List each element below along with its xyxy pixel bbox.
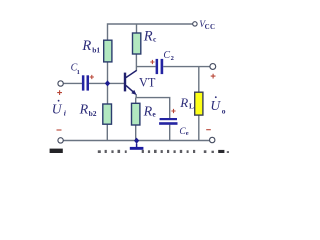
svg-text:VT: VT — [139, 76, 156, 90]
svg-text:L: L — [189, 102, 194, 111]
svg-text:R: R — [179, 95, 188, 110]
svg-text:U: U — [52, 102, 63, 117]
svg-text:R: R — [81, 38, 91, 54]
svg-text:R: R — [143, 28, 153, 44]
svg-text:U: U — [210, 98, 221, 113]
svg-text:2: 2 — [171, 55, 174, 62]
svg-text:C: C — [163, 50, 170, 61]
svg-text:o: o — [222, 107, 226, 116]
svg-text:1: 1 — [77, 69, 80, 76]
svg-text:b2: b2 — [89, 109, 97, 118]
svg-text:CC: CC — [205, 23, 216, 31]
svg-text:b1: b1 — [92, 45, 100, 54]
svg-text:e: e — [152, 110, 156, 119]
svg-text:R: R — [143, 105, 153, 120]
svg-text:c: c — [153, 35, 157, 44]
svg-text:R: R — [79, 103, 89, 118]
svg-text:i: i — [64, 109, 67, 118]
svg-text:e: e — [186, 130, 189, 137]
